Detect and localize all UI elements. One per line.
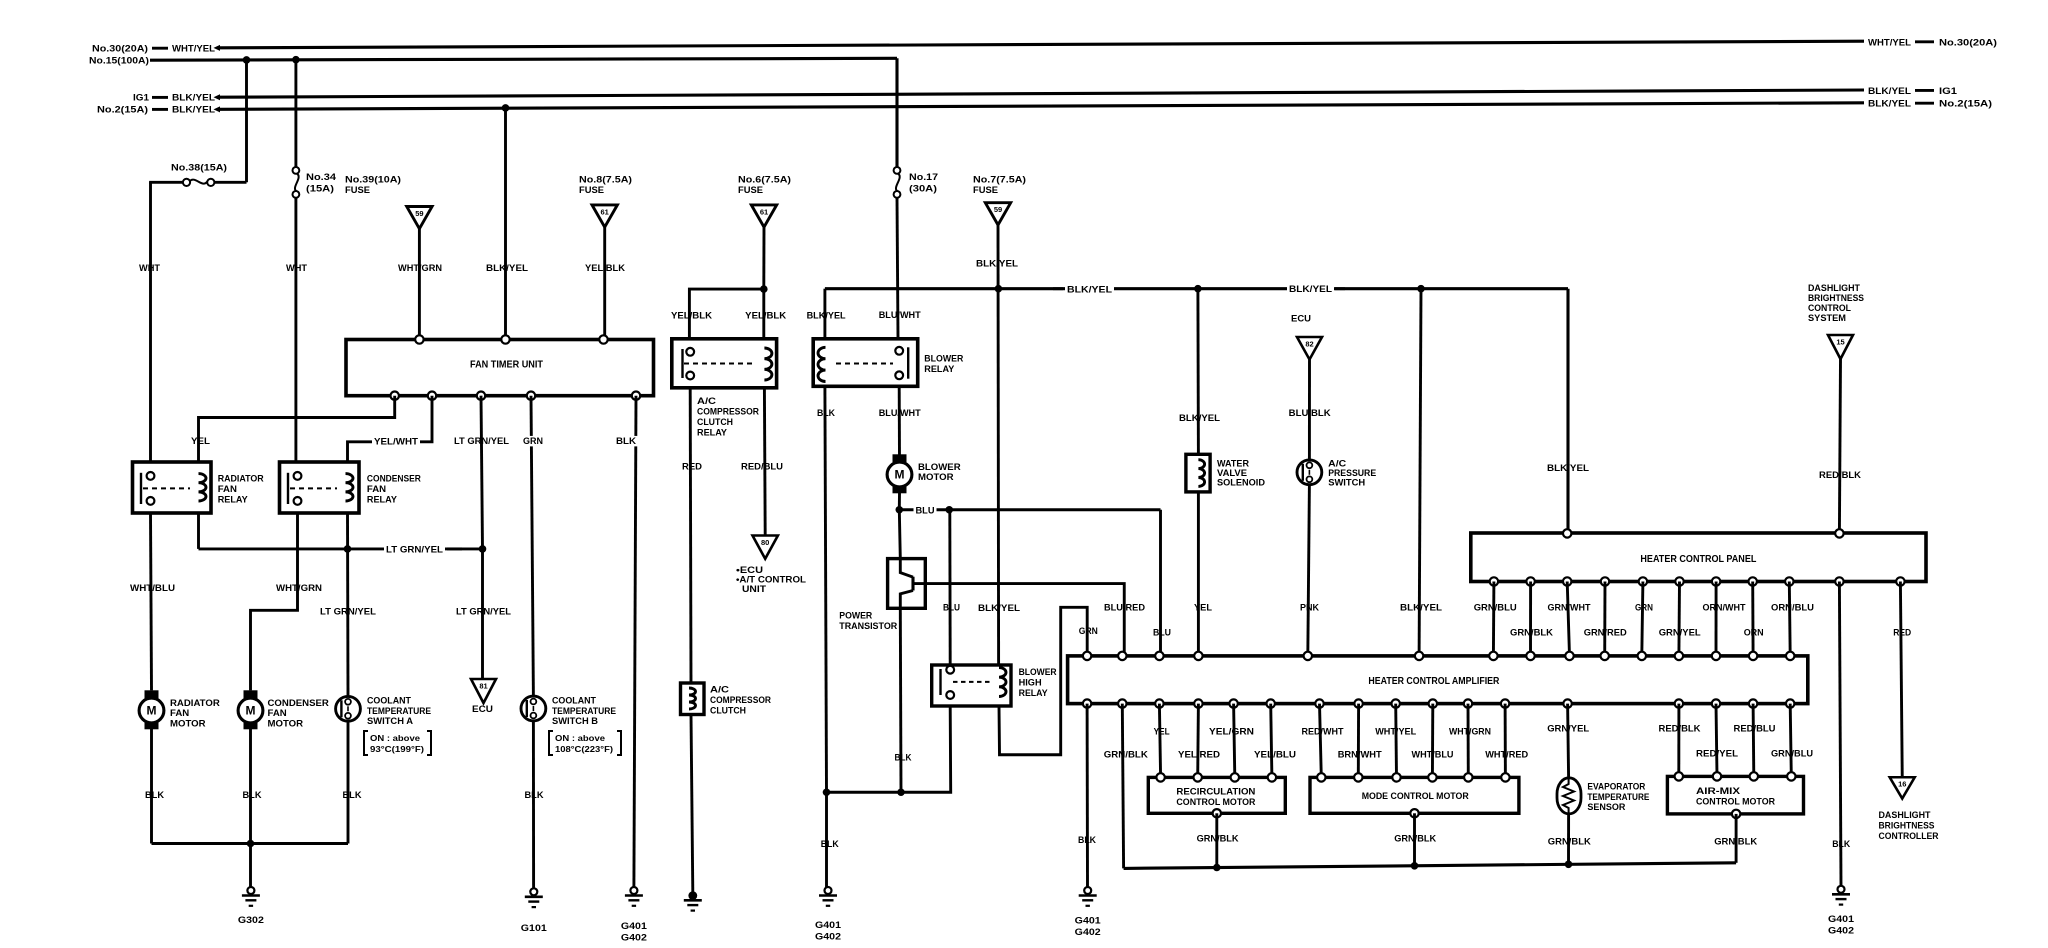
svg-text:CONTROL MOTOR: CONTROL MOTOR — [1176, 796, 1255, 807]
wire: drop from No.15 rail to fuse No.38 — [245, 60, 248, 182]
svg-text:WHT/GRN: WHT/GRN — [276, 583, 322, 594]
svg-text:RED/BLK: RED/BLK — [1819, 470, 1861, 481]
svg-text:No.38(15A): No.38(15A) — [171, 163, 227, 174]
svg-text:RED/BLK: RED/BLK — [1659, 724, 1701, 735]
svg-text:YEL: YEL — [1194, 603, 1212, 614]
svg-text:MODE CONTROL MOTOR: MODE CONTROL MOTOR — [1362, 790, 1469, 801]
wire RED/BLK: dashlight system to heater control panel — [1819, 359, 1861, 533]
svg-text:FUSE: FUSE — [738, 185, 763, 196]
wire GRN/BLU: panel to amplifier — [1474, 582, 1517, 656]
wire WHT: fuse No.38 to radiator fan relay switch — [139, 182, 160, 462]
wire BLK: condenser fan motor down — [243, 729, 262, 844]
svg-text:YEL/BLK: YEL/BLK — [671, 311, 712, 322]
svg-text:RELAY: RELAY — [1019, 688, 1049, 699]
svg-text:108°C(223°F): 108°C(223°F) — [555, 744, 613, 754]
wire YEL/BLK: fuse No.8 to fan timer unit — [585, 227, 625, 340]
svg-text:PRESSURE: PRESSURE — [1328, 468, 1376, 478]
svg-text:G401: G401 — [815, 920, 842, 931]
svg-text:ECU: ECU — [1291, 314, 1311, 325]
wire WHT/RED: amplifier to mode motor — [1485, 704, 1528, 778]
svg-text:MOTOR: MOTOR — [268, 718, 304, 729]
svg-text:SENSOR: SENSOR — [1587, 801, 1625, 812]
svg-text:FAN TIMER UNIT: FAN TIMER UNIT — [470, 360, 543, 371]
svg-text:No.2(15A): No.2(15A) — [97, 105, 148, 116]
svg-text:LT GRN/YEL: LT GRN/YEL — [456, 607, 511, 618]
svg-text:No.15(100A): No.15(100A) — [89, 56, 149, 67]
svg-text:BLU: BLU — [1153, 628, 1171, 639]
wire: radiator relay coil to LT GRN/YEL node — [197, 513, 200, 549]
wire BLK: radiator fan motor down — [145, 729, 164, 844]
connector: ECU triangle 81 — [471, 679, 496, 715]
wire RED/YEL: amplifier to air-mix motor — [1696, 704, 1738, 777]
svg-text:BLU: BLU — [943, 603, 960, 614]
wire GRN: blower high relay coil to amplifier — [999, 607, 1098, 754]
svg-text:RED/BLU: RED/BLU — [1734, 724, 1776, 735]
fan timer unit — [346, 335, 654, 400]
svg-text:YEL/BLU: YEL/BLU — [1254, 750, 1296, 761]
svg-text:BLK/YEL: BLK/YEL — [1179, 413, 1220, 424]
wire: drop from No.15 rail to fuse No.34 — [294, 60, 297, 168]
motor: condenser fan motor — [238, 690, 329, 729]
svg-text:SYSTEM: SYSTEM — [1808, 313, 1846, 323]
svg-text:CLUTCH: CLUTCH — [710, 706, 746, 717]
svg-text:AIR-MIX: AIR-MIX — [1696, 785, 1741, 796]
svg-text:61: 61 — [760, 207, 768, 216]
svg-text:BLK/YEL: BLK/YEL — [976, 259, 1018, 270]
wire WHT/BLU: amplifier to mode motor — [1412, 704, 1454, 778]
mode control motor — [1310, 773, 1519, 817]
node: junction No.15 rail / fuse No.34 drop — [292, 56, 300, 64]
wire GRN: fan timer to coolant temperature switch B — [521, 396, 545, 697]
connector: dashlight brightness control system triangle 15 — [1808, 283, 1864, 359]
svg-text:G402: G402 — [1075, 927, 1101, 938]
wire: power rail No.30(20A) WHT/YEL — [92, 38, 1997, 55]
recirculation control motor — [1148, 773, 1285, 817]
svg-text:61: 61 — [601, 207, 609, 216]
svg-text:G401: G401 — [1828, 914, 1855, 925]
wire RED/BLU: amplifier to air-mix motor — [1734, 704, 1776, 777]
wire GRN/YEL: panel to amplifier — [1659, 582, 1701, 656]
wire BLU/RED: power transistor output to amplifier — [913, 584, 1145, 656]
svg-text:RED: RED — [1893, 628, 1911, 639]
svg-text:DASHLIGHT: DASHLIGHT — [1879, 810, 1931, 820]
wire BLK/YEL: bus to blower relay coil — [807, 289, 846, 339]
svg-text:YEL/RED: YEL/RED — [1178, 750, 1220, 761]
svg-text:No.39(10A): No.39(10A) — [345, 175, 401, 186]
svg-text:WHT: WHT — [139, 263, 160, 274]
svg-text:MOTOR: MOTOR — [918, 472, 954, 483]
solenoid: water valve solenoid — [1179, 289, 1265, 492]
wire: BLK/YEL bus — [825, 284, 1568, 295]
svg-text:BLK/YEL: BLK/YEL — [1400, 603, 1442, 614]
svg-text:(15A): (15A) — [306, 184, 334, 195]
svg-text:No.7(7.5A): No.7(7.5A) — [973, 175, 1026, 186]
svg-text:59: 59 — [415, 209, 423, 218]
svg-text:A/C: A/C — [697, 396, 716, 407]
svg-text:BLK/YEL: BLK/YEL — [172, 105, 215, 116]
svg-text:RELAY: RELAY — [218, 495, 249, 506]
svg-text:TRANSISTOR: TRANSISTOR — [839, 621, 897, 632]
svg-text:ON : above: ON : above — [555, 733, 605, 743]
svg-text:BLK/YEL: BLK/YEL — [1289, 284, 1332, 295]
air-mix control motor — [1667, 772, 1803, 818]
svg-text:WHT: WHT — [286, 263, 307, 274]
svg-text:GRN/BLU: GRN/BLU — [1771, 749, 1813, 760]
svg-text:BLK/YEL: BLK/YEL — [978, 603, 1020, 614]
svg-text:G402: G402 — [621, 933, 647, 944]
relay: A/C compressor clutch relay — [672, 339, 777, 439]
wire GRN/WHT: panel to amplifier — [1548, 582, 1591, 656]
wire BLK/YEL: bus corner down to heater control panel — [1547, 289, 1589, 534]
wire YEL: water valve solenoid to amplifier — [1194, 492, 1212, 656]
node: junction BLK bus / relay coil ground wire — [823, 788, 831, 796]
svg-text:GRN: GRN — [1635, 603, 1653, 614]
svg-text:M: M — [246, 704, 256, 718]
svg-text:BLK: BLK — [895, 753, 912, 764]
wire BLU: node to heater control amplifier — [899, 505, 1171, 656]
node: junction ground bus / recirculation — [1213, 864, 1221, 872]
svg-text:LT GRN/YEL: LT GRN/YEL — [320, 607, 376, 618]
svg-text:RELAY: RELAY — [924, 364, 955, 375]
transistor: power transistor — [839, 559, 925, 632]
svg-text:HIGH: HIGH — [1019, 678, 1042, 689]
wire BLK/YEL: bus to amplifier — [1400, 289, 1442, 656]
svg-text:BLK: BLK — [616, 436, 636, 447]
svg-text:WHT/YEL: WHT/YEL — [1868, 38, 1911, 49]
svg-text:BLK/YEL: BLK/YEL — [172, 93, 215, 104]
svg-text:SWITCH B: SWITCH B — [552, 716, 598, 727]
wire YEL/BLK: fuse No.6 to A/C compressor clutch relay — [745, 227, 786, 339]
svg-text:CONDENSER: CONDENSER — [367, 474, 421, 485]
wire BLU: node down to blower high relay switch — [943, 510, 960, 665]
svg-text:ON : above: ON : above — [370, 733, 420, 743]
wire BLK/YEL: fuse No.7 down to blower high relay coil — [976, 225, 1020, 665]
ground G401/G402 (fan timer BLK) — [621, 887, 648, 944]
wire BLU/BLK: ECU to A/C pressure switch — [1289, 360, 1331, 460]
wire: BLU node down to power transistor — [899, 510, 900, 559]
svg-text:BRIGHTNESS: BRIGHTNESS — [1808, 293, 1864, 303]
wire WHT/BLU: radiator relay to radiator fan motor — [130, 513, 175, 690]
svg-text:GRN/BLU: GRN/BLU — [1474, 603, 1517, 614]
wire BLK: panel to ground G401 (right) — [1832, 582, 1850, 887]
relay: radiator fan relay — [133, 462, 264, 513]
fuse No.6(7.5A) connector 61 — [738, 175, 791, 228]
node: junction bus / amplifier BLK/YEL — [1417, 285, 1425, 293]
svg-text:GRN/BLK: GRN/BLK — [1510, 628, 1553, 639]
svg-text:ORN/WHT: ORN/WHT — [1703, 603, 1746, 614]
svg-text:SOLENOID: SOLENOID — [1217, 478, 1265, 488]
fuse No.34(15A) — [293, 167, 337, 198]
svg-text:RELAY: RELAY — [697, 428, 728, 439]
svg-text:RED/BLU: RED/BLU — [741, 462, 783, 473]
svg-text:WHT/BLU: WHT/BLU — [1412, 750, 1454, 761]
svg-text:RED/YEL: RED/YEL — [1696, 749, 1738, 760]
svg-text:GRN: GRN — [523, 436, 543, 447]
svg-text:BLK/YEL: BLK/YEL — [807, 311, 846, 322]
svg-text:GRN/YEL: GRN/YEL — [1659, 628, 1701, 639]
wire WHT/GRN: amplifier to mode motor — [1449, 704, 1491, 778]
svg-text:82: 82 — [1305, 340, 1313, 349]
wire BLU/WHT: blower relay to blower motor — [879, 386, 921, 460]
svg-text:G401: G401 — [1075, 916, 1102, 927]
svg-text:CONTROLLER: CONTROLLER — [1879, 831, 1939, 841]
wire: ignition rail IG1 BLK/YEL — [133, 86, 1958, 104]
svg-text:GRN/WHT: GRN/WHT — [1548, 603, 1591, 614]
svg-text:BLK: BLK — [343, 790, 362, 801]
fuse No.38(15A) — [149, 163, 246, 186]
svg-text:No.8(7.5A): No.8(7.5A) — [579, 175, 632, 186]
svg-text:BLK: BLK — [817, 408, 835, 419]
svg-text:BLK: BLK — [145, 790, 164, 801]
node: junction LT GRN/YEL / ECU branch — [479, 545, 487, 553]
svg-text:HEATER CONTROL AMPLIFIER: HEATER CONTROL AMPLIFIER — [1368, 676, 1499, 687]
connector: ECU / A/T control unit triangle 80 — [736, 536, 806, 595]
svg-text:GRN/YEL: GRN/YEL — [1547, 724, 1589, 735]
svg-text:VALVE: VALVE — [1217, 468, 1247, 478]
node: junction BLK bus / transistor — [897, 788, 905, 796]
relay: blower relay — [813, 339, 963, 387]
svg-text:FUSE: FUSE — [579, 185, 604, 196]
wire: motor ground bus — [1124, 863, 1737, 869]
svg-text:BLU/BLK: BLU/BLK — [1289, 408, 1331, 419]
wire: ground bus to G302 — [152, 844, 349, 888]
wire BLK: power transistor to ground bus — [895, 608, 912, 792]
svg-text:A/C: A/C — [1328, 459, 1346, 469]
svg-text:15: 15 — [1836, 338, 1844, 347]
svg-text:BLOWER: BLOWER — [1019, 667, 1057, 678]
wire RED: A/C relay to compressor clutch — [682, 388, 702, 683]
svg-text:G402: G402 — [1828, 926, 1854, 937]
svg-text:YEL/GRN: YEL/GRN — [1209, 727, 1254, 738]
svg-text:BLK: BLK — [243, 790, 262, 801]
node: junction No.15 rail / fuse No.38 drop — [243, 56, 251, 64]
wire WHT/GRN: fuse No.39 to fan timer unit — [398, 229, 442, 340]
connector: dashlight brightness controller triangle 16 — [1879, 777, 1939, 841]
wire RED: panel to dashlight brightness controller — [1893, 582, 1911, 778]
node: junction YEL/BLK branch — [760, 285, 768, 293]
svg-text:BLU: BLU — [916, 505, 935, 516]
wire BLK: amplifier to ground G401 (left) — [1078, 704, 1096, 888]
fuse No.17(30A) — [894, 167, 938, 198]
svg-text:BLOWER: BLOWER — [924, 354, 963, 365]
svg-text:BLK: BLK — [1078, 835, 1096, 846]
svg-text:WHT/RED: WHT/RED — [1485, 750, 1528, 761]
svg-text:No.17: No.17 — [909, 172, 938, 183]
wire BLU/WHT: fuse No.17 to blower relay switch — [879, 198, 921, 339]
svg-text:A/C: A/C — [710, 685, 729, 696]
svg-text:GRN/BLK: GRN/BLK — [1394, 834, 1436, 845]
wire RED/BLU: A/C relay coil to ECU/AT control unit — [741, 388, 783, 536]
svg-text:BLK/YEL: BLK/YEL — [1868, 99, 1911, 110]
wire BLK: coolant switch A down — [343, 721, 362, 843]
svg-text:(30A): (30A) — [909, 184, 937, 195]
svg-text:ORN/BLU: ORN/BLU — [1771, 603, 1814, 614]
wire ORN/WHT: panel to amplifier — [1703, 582, 1746, 656]
svg-text:RED/WHT: RED/WHT — [1302, 727, 1344, 738]
wire RED/WHT: amplifier to mode motor — [1302, 704, 1344, 778]
svg-text:FAN: FAN — [367, 484, 386, 495]
node: junction ground bus — [247, 840, 255, 848]
motor: blower motor — [887, 454, 961, 493]
wire LT GRN/YEL: condenser relay coil to coolant temperature switch A — [320, 513, 376, 696]
svg-text:ECU: ECU — [472, 704, 493, 715]
ground G401/G402 (blower relay BLK) — [815, 887, 842, 943]
svg-text:•ECU: •ECU — [736, 565, 763, 575]
ground G401/G402 (amplifier BLK) — [1075, 887, 1102, 938]
wire: rail No.2(15A) BLK/YEL — [97, 99, 1992, 116]
svg-text:YEL/WHT: YEL/WHT — [374, 437, 418, 448]
svg-text:BLU/WHT: BLU/WHT — [879, 408, 921, 419]
svg-text:RED: RED — [682, 462, 702, 473]
svg-text:LT GRN/YEL: LT GRN/YEL — [386, 545, 443, 556]
wire GRN/YEL: amplifier to evaporator temperature sensor — [1547, 704, 1589, 778]
wire: blower high relay switch to BLK ground bus — [827, 706, 951, 792]
heater control amplifier — [1068, 652, 1808, 708]
svg-text:HEATER CONTROL PANEL: HEATER CONTROL PANEL — [1640, 554, 1756, 565]
wire GRN/BLK: air-mix motor to ground bus — [1714, 814, 1757, 863]
wire RED/BLK: amplifier to air-mix motor — [1659, 704, 1701, 777]
svg-text:COMPRESSOR: COMPRESSOR — [710, 695, 771, 706]
wire GRN/RED: panel to amplifier — [1584, 582, 1627, 656]
svg-text:BLK/YEL: BLK/YEL — [1547, 463, 1589, 474]
svg-text:•A/T CONTROL: •A/T CONTROL — [736, 575, 806, 585]
svg-text:BLK/YEL: BLK/YEL — [1868, 86, 1911, 97]
ground (A/C compressor clutch, case) — [684, 891, 702, 910]
svg-text:YEL/BLK: YEL/BLK — [745, 311, 786, 322]
svg-text:81: 81 — [479, 682, 487, 691]
svg-text:SWITCH A: SWITCH A — [367, 716, 413, 727]
svg-text:M: M — [895, 468, 905, 482]
svg-text:BRIGHTNESS: BRIGHTNESS — [1879, 821, 1935, 831]
svg-text:M: M — [147, 704, 157, 718]
fuse No.39(10A) connector 59 — [345, 175, 432, 229]
svg-text:59: 59 — [994, 205, 1002, 214]
wire BLK: fan timer to ground G401 — [614, 396, 638, 888]
wire GRN/BLK: recirculation motor to ground bus — [1197, 813, 1239, 867]
svg-text:FUSE: FUSE — [345, 185, 370, 196]
switch: coolant temperature switch A — [336, 696, 432, 756]
svg-text:ORN: ORN — [1744, 628, 1764, 639]
node: junction bus / water valve solenoid — [1194, 285, 1202, 293]
svg-text:No.30(20A): No.30(20A) — [92, 44, 148, 55]
wire GRN/BLK: panel to amplifier — [1510, 582, 1553, 656]
wire ORN: panel to amplifier — [1744, 582, 1764, 656]
relay: condenser fan relay — [280, 462, 421, 513]
wire GRN/BLK: evaporator sensor to ground bus — [1548, 814, 1591, 864]
fuse No.7(7.5A) connector 59 — [973, 175, 1026, 225]
svg-text:CLUTCH: CLUTCH — [697, 417, 733, 428]
svg-text:G402: G402 — [815, 932, 841, 943]
wire: drop from No.15 corner to fuse No.17 — [895, 58, 898, 167]
wire YEL/BLU: amplifier to recirculation motor — [1254, 704, 1296, 778]
wire WHT/YEL: amplifier to mode motor — [1375, 704, 1416, 778]
svg-text:COMPRESSOR: COMPRESSOR — [697, 407, 759, 418]
svg-text:WHT/YEL: WHT/YEL — [1375, 727, 1416, 738]
svg-text:WHT/BLU: WHT/BLU — [130, 583, 175, 594]
svg-text:CONTROL: CONTROL — [1808, 303, 1851, 313]
svg-text:WHT/GRN: WHT/GRN — [1449, 727, 1491, 738]
wire YEL/RED: amplifier to recirculation motor — [1178, 704, 1220, 778]
svg-text:MOTOR: MOTOR — [170, 718, 206, 729]
svg-text:RADIATOR: RADIATOR — [218, 474, 264, 485]
svg-text:PNK: PNK — [1300, 603, 1319, 614]
wire: power rail No.15(100A) — [89, 56, 897, 67]
svg-text:FAN: FAN — [218, 484, 237, 495]
ground G101 — [521, 888, 548, 934]
wire YEL: fan timer to radiator fan relay coil — [191, 396, 395, 462]
heater control panel — [1471, 529, 1926, 586]
svg-text:IG1: IG1 — [1939, 86, 1958, 97]
svg-text:WHT/YEL: WHT/YEL — [172, 44, 215, 55]
svg-text:BLK: BLK — [821, 839, 839, 850]
wire GRN/BLU: amplifier to air-mix motor — [1771, 704, 1813, 777]
svg-text:WHT/GRN: WHT/GRN — [398, 263, 442, 274]
wire BRN/WHT: amplifier to mode motor — [1338, 704, 1382, 778]
relay: blower high relay — [932, 665, 1057, 706]
svg-text:POWER: POWER — [839, 611, 872, 622]
svg-text:RELAY: RELAY — [367, 495, 398, 506]
svg-text:BLK: BLK — [1832, 839, 1850, 850]
svg-text:GRN/BLK: GRN/BLK — [1548, 837, 1591, 848]
wire WHT/GRN: condenser relay to condenser fan motor — [251, 513, 323, 690]
connector: ECU triangle 82 — [1291, 314, 1322, 360]
svg-text:GRN/RED: GRN/RED — [1584, 628, 1627, 639]
wire PNK: A/C pressure switch to amplifier — [1300, 485, 1319, 656]
svg-text:16: 16 — [1898, 780, 1906, 789]
svg-text:GRN/BLK: GRN/BLK — [1714, 837, 1757, 848]
svg-text:G302: G302 — [238, 915, 264, 926]
svg-text:GRN/BLK: GRN/BLK — [1104, 750, 1148, 761]
svg-text:No.34: No.34 — [306, 172, 337, 183]
svg-text:RECIRCULATION: RECIRCULATION — [1176, 786, 1255, 797]
motor: radiator fan motor — [139, 690, 220, 729]
wire: blower motor to BLU node — [898, 493, 901, 510]
svg-text:SWITCH: SWITCH — [1328, 478, 1365, 488]
svg-text:UNIT: UNIT — [742, 584, 766, 594]
wire GRN/BLK: mode motor to ground bus — [1394, 813, 1436, 866]
wire LT GRN/YEL: relay coils common — [199, 544, 484, 555]
sensor: evaporator temperature sensor — [1557, 778, 1649, 814]
svg-text:YEL/BLK: YEL/BLK — [585, 263, 625, 274]
node: junction bus / fuse No.7 — [995, 285, 1003, 293]
wire BLK: blower relay coil to ground G401 — [817, 386, 839, 887]
wire ORN/BLU: panel to amplifier — [1771, 582, 1814, 656]
load: A/C compressor clutch coil — [681, 683, 772, 717]
svg-text:IG1: IG1 — [133, 93, 150, 104]
node: junction BLU at blower motor — [896, 506, 904, 514]
svg-text:No.2(15A): No.2(15A) — [1939, 99, 1992, 110]
svg-text:No.30(20A): No.30(20A) — [1939, 38, 1997, 49]
svg-text:FUSE: FUSE — [973, 185, 998, 196]
svg-text:BLK: BLK — [525, 790, 544, 801]
svg-text:BLU/WHT: BLU/WHT — [879, 310, 921, 321]
svg-text:GRN: GRN — [1079, 626, 1098, 637]
wire WHT: fuse No.34 to condenser fan relay switch — [286, 198, 307, 462]
svg-text:BLU/RED: BLU/RED — [1104, 603, 1145, 614]
switch: coolant temperature switch B — [521, 696, 621, 756]
svg-text:LT GRN/YEL: LT GRN/YEL — [454, 436, 509, 447]
node: junction ground bus / evaporator — [1565, 861, 1573, 869]
svg-text:G101: G101 — [521, 923, 548, 934]
wire YEL/WHT: fan timer to condenser fan relay coil — [348, 396, 433, 462]
wire: compressor clutch to ground — [691, 715, 693, 893]
svg-text:YEL: YEL — [1154, 727, 1170, 738]
svg-text:GRN/BLK: GRN/BLK — [1197, 834, 1239, 845]
node: junction condenser coil / LT GRN/YEL — [344, 545, 352, 553]
wire BLK/YEL: No.2 rail to fan timer unit — [486, 108, 528, 340]
node: junction BLU / blower high relay — [945, 506, 953, 514]
node: junction ground bus / mode — [1411, 862, 1419, 870]
